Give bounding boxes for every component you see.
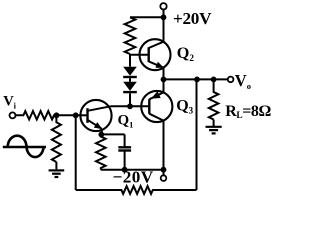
svg-text:−20V: −20V bbox=[113, 168, 154, 187]
svg-text:+20V: +20V bbox=[173, 9, 212, 28]
svg-text:RL=8Ω: RL=8Ω bbox=[225, 103, 271, 121]
svg-text:Q2: Q2 bbox=[177, 44, 195, 63]
svg-text:Q1: Q1 bbox=[118, 112, 134, 129]
svg-text:Vo: Vo bbox=[235, 71, 251, 91]
svg-text:Vi: Vi bbox=[3, 94, 16, 111]
svg-text:Q3: Q3 bbox=[176, 97, 193, 115]
